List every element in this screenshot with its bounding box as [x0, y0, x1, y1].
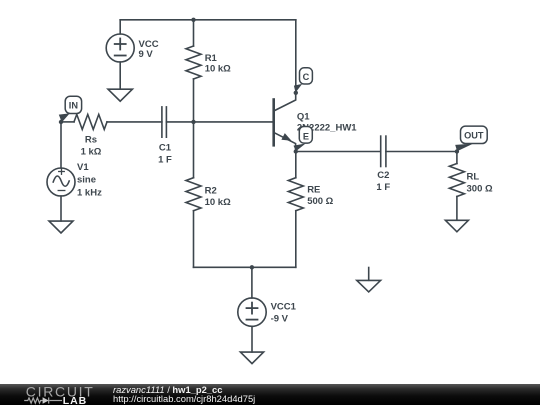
resistor RE — [288, 152, 303, 268]
wire Rs to C1 — [107, 121, 162, 123]
ground floating — [357, 268, 381, 292]
svg-text:1 F: 1 F — [376, 182, 390, 193]
node junction IN V1 — [59, 120, 63, 124]
label Q1 2N2222_HW1 — [297, 111, 357, 133]
ground VCC — [108, 89, 132, 101]
capacitor C2 — [381, 136, 386, 166]
wire V1 to ground — [60, 196, 62, 221]
svg-text:C1: C1 — [159, 143, 172, 154]
resistor Rs — [74, 114, 107, 129]
wire VCC top stem — [119, 20, 121, 34]
svg-text:500 Ω: 500 Ω — [307, 196, 333, 207]
svg-text:IN: IN — [69, 100, 79, 110]
resistor R2 — [186, 122, 201, 267]
label R1 10 kOhm — [205, 53, 231, 75]
ground RL — [445, 220, 468, 232]
label R2 10 kOhm — [205, 186, 231, 209]
ground V1 — [49, 221, 73, 233]
voltage source V1 — [47, 168, 75, 196]
svg-text:RL: RL — [467, 172, 480, 183]
wire IN node to Rs — [61, 121, 74, 123]
label Rs 1 kOhm — [81, 135, 102, 158]
ground VCC1 — [240, 352, 263, 364]
wire collector drop — [295, 20, 297, 93]
svg-text:R2: R2 — [205, 186, 217, 197]
CircuitLab logo — [0, 384, 100, 405]
svg-text:300 Ω: 300 Ω — [467, 184, 493, 195]
svg-text:Q1: Q1 — [297, 111, 310, 122]
label RE 500 Ohm — [307, 185, 333, 208]
voltage source VCC — [106, 34, 134, 62]
svg-text:Rs: Rs — [85, 135, 97, 146]
wire V1 to IN node — [60, 122, 62, 168]
svg-text:VCC: VCC — [139, 39, 159, 50]
svg-text:LAB: LAB — [63, 395, 87, 405]
node junction top rail R1 — [191, 18, 195, 22]
svg-text:-9 V: -9 V — [271, 313, 289, 324]
node junction base C1 R2 — [191, 120, 195, 124]
svg-text:RE: RE — [307, 185, 320, 196]
wire VCC1 stem — [251, 267, 253, 298]
label C2 1 F — [376, 170, 390, 193]
svg-text:1 kHz: 1 kHz — [77, 188, 102, 199]
label VCC1 -9 V — [271, 302, 297, 325]
named node C — [294, 68, 313, 93]
svg-text:V1: V1 — [77, 162, 89, 173]
svg-text:10 kΩ: 10 kΩ — [205, 197, 231, 208]
wire C2 to OUT — [386, 151, 457, 153]
resistor R1 — [186, 20, 201, 122]
named node OUT — [455, 126, 487, 151]
credit text — [113, 385, 255, 404]
svg-text:1 kΩ: 1 kΩ — [81, 146, 102, 157]
footer credit bar — [0, 384, 540, 405]
svg-text:sine: sine — [77, 175, 96, 186]
wire VCC to ground — [119, 62, 121, 89]
wire top rail — [120, 19, 296, 21]
label C1 1 F — [158, 143, 172, 166]
voltage source VCC1 — [238, 298, 266, 326]
node collector dot — [294, 91, 298, 95]
wire VCC1 to ground — [251, 326, 253, 352]
label VCC 9 V — [139, 39, 159, 60]
svg-text:10 kΩ: 10 kΩ — [205, 64, 231, 75]
named node E — [294, 127, 313, 152]
capacitor C1 — [162, 107, 167, 137]
svg-text:VCC1: VCC1 — [271, 302, 297, 313]
node emitter dot — [294, 149, 298, 153]
node OUT dot — [455, 149, 459, 153]
label V1 sine 1 kHz — [77, 162, 102, 199]
svg-text:C2: C2 — [377, 170, 389, 181]
transistor Q1 — [274, 93, 296, 152]
svg-text:OUT: OUT — [464, 130, 484, 140]
node junction VCC1 — [250, 265, 254, 269]
label RL 300 Ohm — [467, 172, 493, 195]
svg-text:E: E — [303, 131, 309, 141]
resistor RL — [449, 152, 464, 221]
svg-text:R1: R1 — [205, 53, 218, 64]
svg-text:9 V: 9 V — [139, 49, 154, 60]
wire emitter rail — [296, 151, 381, 153]
svg-text:1 F: 1 F — [158, 154, 172, 165]
wire C1 to base — [166, 121, 273, 123]
named node IN — [59, 96, 82, 122]
svg-text:C: C — [303, 72, 310, 82]
wire bottom rail — [194, 266, 296, 268]
